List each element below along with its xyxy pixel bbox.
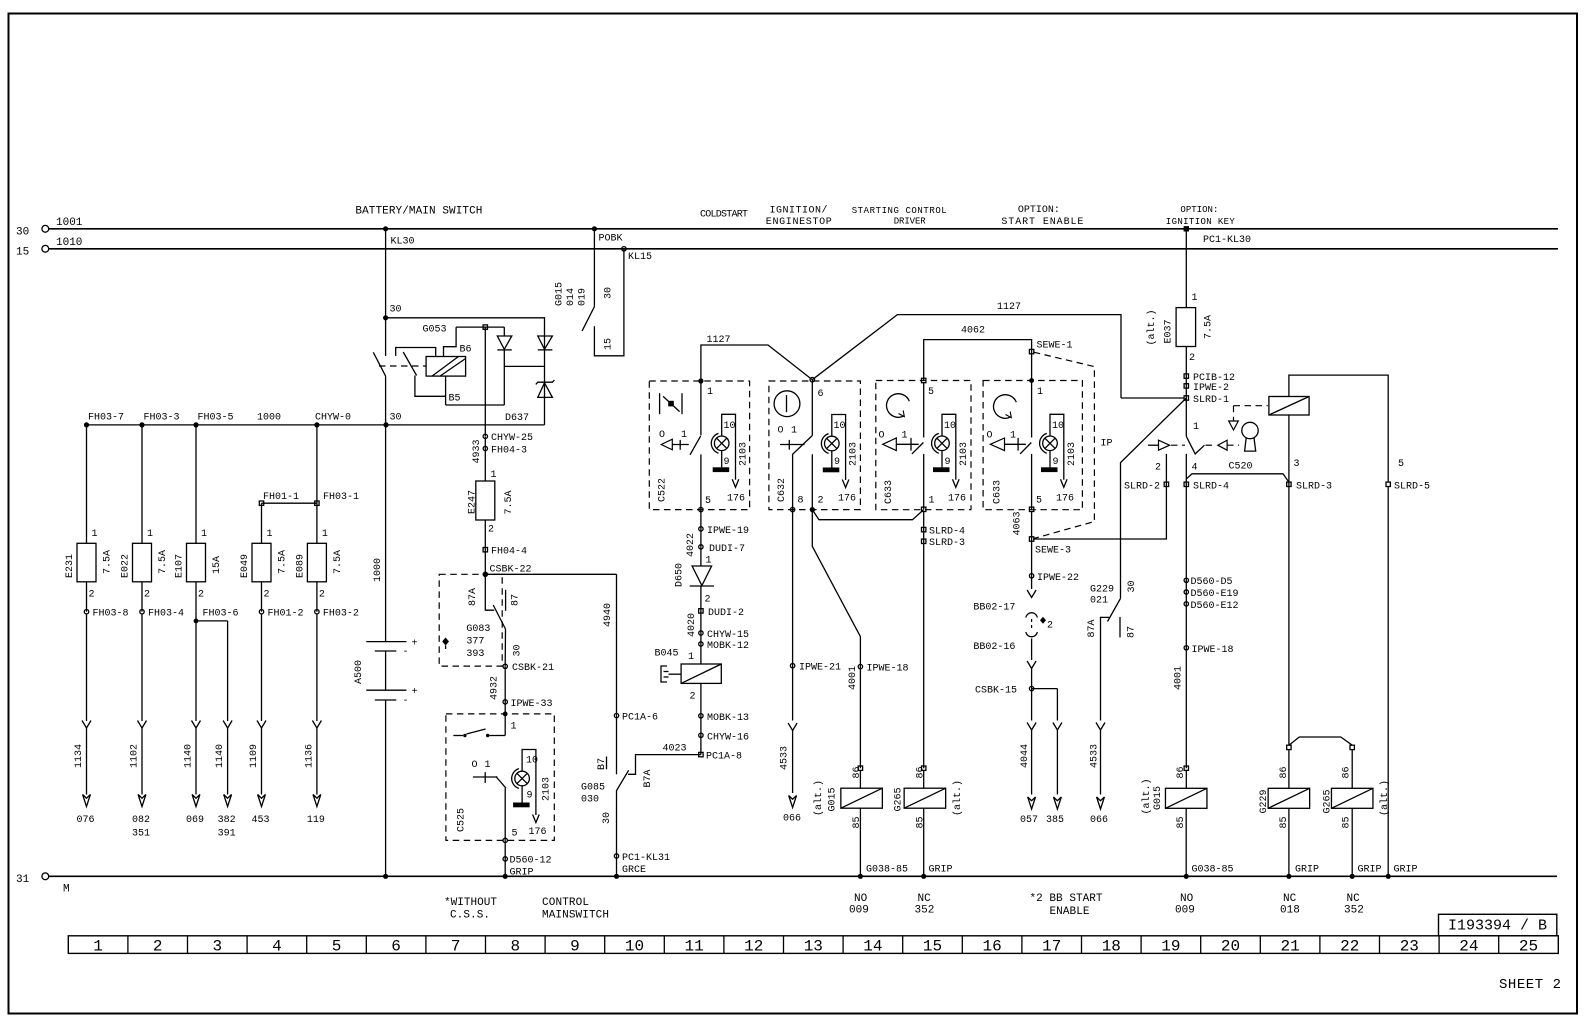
svg-text:009: 009 [1175, 905, 1195, 917]
svg-text:066: 066 [783, 814, 801, 825]
wire 4044 to 057 arrow [1020, 723, 1038, 827]
svg-text:4533: 4533 [1090, 744, 1101, 768]
relay coil G265 right [1323, 766, 1392, 916]
svg-text:C.S.S.: C.S.S. [450, 910, 490, 922]
svg-text:12: 12 [744, 938, 763, 956]
svg-text:2103: 2103 [849, 442, 860, 466]
svg-text:6: 6 [391, 938, 401, 956]
svg-text:385: 385 [1046, 815, 1064, 826]
svg-text:24: 24 [1459, 938, 1478, 956]
svg-text:BB02-16: BB02-16 [973, 642, 1015, 653]
svg-text:GRIP: GRIP [929, 865, 953, 876]
svg-text:5: 5 [705, 496, 711, 507]
switch unit C633 start enable (dashed enclosure) [983, 378, 1082, 510]
branch CSBK-15 to 385 arrow [1032, 689, 1064, 826]
svg-text:-: - [403, 647, 409, 658]
battery A500 [354, 425, 418, 879]
zener diode (in G053) [536, 380, 555, 397]
svg-text:G229: G229 [1090, 585, 1114, 596]
svg-text:1000: 1000 [257, 413, 281, 424]
fuse E247 7.5A [468, 449, 516, 575]
glow plug indicator icon [660, 393, 682, 414]
svg-text:OPTION:: OPTION: [1018, 205, 1060, 216]
svg-text:G038-85: G038-85 [866, 865, 908, 876]
wire pin2 to C633 pin1 and IPWE-18 [812, 510, 923, 769]
svg-text:-: - [403, 696, 409, 707]
svg-text:G085: G085 [581, 783, 605, 794]
switch unit C632 ignition (dashed enclosure) [769, 377, 861, 509]
svg-text:352: 352 [1344, 905, 1364, 917]
svg-text:85: 85 [852, 816, 863, 828]
svg-text:15A: 15A [212, 556, 223, 574]
svg-text:NO: NO [854, 893, 868, 905]
svg-text:7.5A: 7.5A [278, 550, 289, 574]
svg-text:O: O [472, 760, 478, 771]
svg-text:G038-85: G038-85 [1192, 865, 1234, 876]
rotation icon [887, 394, 910, 418]
fuse E037 (alt.) 7.5A [1146, 293, 1215, 436]
wire SEWE-3 to SLRD-2 [1034, 454, 1169, 539]
svg-text:MOBK-13: MOBK-13 [707, 713, 749, 724]
key-operated relay coil (dashed link) [1229, 397, 1309, 431]
svg-text:1: 1 [688, 652, 694, 663]
svg-text:+: + [412, 687, 418, 698]
ignition key switch C520 [1184, 422, 1252, 576]
svg-text:1: 1 [707, 387, 713, 398]
svg-text:SLRD-2: SLRD-2 [1124, 482, 1160, 493]
svg-text:C633: C633 [993, 480, 1004, 504]
svg-text:E049: E049 [240, 554, 251, 578]
svg-text:20: 20 [1221, 938, 1240, 956]
box3 switch contact [879, 431, 935, 510]
C632 switch contact [778, 426, 824, 510]
svg-text:FH01-2: FH01-2 [268, 609, 304, 620]
svg-text:IGNITION/: IGNITION/ [770, 205, 828, 217]
svg-text:B7: B7 [597, 758, 608, 770]
svg-text:1127: 1127 [707, 335, 731, 346]
svg-text:DUDI-7: DUDI-7 [709, 544, 745, 555]
svg-text:1: 1 [511, 722, 517, 733]
relay contact G083/377/393 (dashed enclosure) [439, 574, 523, 666]
svg-text:1: 1 [706, 556, 712, 567]
C632 indicator lamp 2103/176 [821, 415, 859, 505]
svg-text:E107: E107 [175, 554, 186, 578]
svg-text:C522: C522 [658, 478, 669, 502]
nodes SLRD-4 SLRD-3 on wire to G265 [922, 512, 966, 769]
svg-text:351: 351 [132, 829, 150, 840]
svg-text:7.5A: 7.5A [158, 550, 169, 574]
key symbol [1242, 422, 1258, 451]
footnote texts [444, 897, 609, 922]
svg-text:1127: 1127 [997, 302, 1021, 313]
svg-text:*2 BB START: *2 BB START [1030, 893, 1103, 905]
box4 indicator lamp [1040, 414, 1078, 504]
svg-text:86: 86 [1342, 766, 1353, 778]
svg-text:DUDI-2: DUDI-2 [708, 608, 744, 619]
svg-text:30: 30 [390, 413, 402, 424]
svg-text:FH03-5: FH03-5 [198, 413, 234, 424]
wire 4023 to G085 [636, 754, 701, 757]
svg-text:(alt.): (alt.) [1141, 778, 1153, 814]
svg-text:22: 22 [1340, 938, 1359, 956]
svg-text:SLRD-3: SLRD-3 [929, 538, 965, 549]
wire 1127 [701, 302, 1121, 398]
svg-text:G053: G053 [423, 325, 447, 336]
node PC1-KL31 GRCE [614, 853, 670, 879]
node CSBK-22 [483, 565, 532, 578]
svg-text:CHYW-25: CHYW-25 [491, 433, 533, 444]
svg-text:NC: NC [918, 893, 932, 905]
svg-text:1109: 1109 [249, 744, 260, 768]
svg-text:IGNITION KEY: IGNITION KEY [1166, 217, 1236, 227]
svg-text:4022: 4022 [686, 533, 697, 557]
svg-text:E089: E089 [295, 554, 306, 578]
svg-text:10: 10 [724, 421, 736, 432]
svg-text:I193394 / B: I193394 / B [1448, 918, 1547, 935]
svg-text:(alt.): (alt.) [952, 780, 964, 816]
svg-text:30: 30 [1127, 580, 1138, 592]
svg-text:O: O [659, 430, 665, 441]
wire 1127 tail into SLRD-1 [1121, 397, 1184, 399]
node IPWE-18 wire 4001 [1174, 645, 1234, 690]
svg-text:D560-12: D560-12 [510, 856, 552, 867]
wire 4020 nodes [687, 608, 749, 652]
svg-text:21: 21 [1280, 938, 1299, 956]
svg-text:7.5A: 7.5A [1204, 315, 1215, 339]
svg-text:17: 17 [1042, 938, 1061, 956]
svg-text:B045: B045 [655, 649, 679, 660]
svg-text:10: 10 [625, 938, 644, 956]
svg-text:2: 2 [818, 496, 824, 507]
svg-text:FH03-8: FH03-8 [93, 609, 129, 620]
fuse column E022 [121, 425, 185, 840]
svg-text:4063: 4063 [1013, 511, 1024, 535]
svg-text:G083: G083 [466, 624, 490, 635]
svg-text:CSBK-15: CSBK-15 [975, 686, 1017, 697]
svg-text:(alt.): (alt.) [1146, 309, 1158, 345]
svg-text:30: 30 [602, 812, 613, 824]
svg-text:MOBK-12: MOBK-12 [707, 641, 749, 652]
footnote *2 BB START ENABLE [1030, 893, 1103, 918]
svg-text:*WITHOUT: *WITHOUT [444, 897, 497, 909]
box3 indicator lamp [932, 414, 970, 504]
svg-text:CONTROL: CONTROL [542, 897, 589, 909]
svg-text:2: 2 [690, 692, 696, 703]
svg-text:86: 86 [1279, 766, 1290, 778]
svg-text:13: 13 [804, 938, 823, 956]
node SLRD-5 [1386, 482, 1430, 879]
svg-text:E022: E022 [121, 554, 132, 578]
junction [314, 422, 319, 427]
svg-text:453: 453 [251, 815, 269, 826]
node CSBK-21 [503, 663, 554, 674]
diode (in G053, outer) [504, 336, 552, 366]
svg-text:069: 069 [186, 815, 204, 826]
svg-text:176: 176 [529, 827, 547, 838]
svg-text:082: 082 [132, 815, 150, 826]
svg-text:PC1-KL31: PC1-KL31 [622, 853, 670, 864]
svg-text:NC: NC [1283, 893, 1297, 905]
key mechanical linkage [1148, 440, 1239, 450]
svg-text:1: 1 [681, 430, 687, 441]
svg-text:C520: C520 [1229, 462, 1253, 473]
junction [383, 422, 388, 427]
node 1000 distribution bus [87, 413, 545, 425]
svg-text:C633: C633 [884, 480, 895, 504]
svg-text:FH01-1: FH01-1 [263, 492, 299, 503]
svg-text:30: 30 [513, 644, 524, 656]
svg-text:IPWE-18: IPWE-18 [1192, 645, 1234, 656]
svg-text:30: 30 [390, 305, 402, 316]
svg-text:1: 1 [1192, 293, 1198, 304]
svg-text:1: 1 [1010, 431, 1016, 442]
svg-text:5: 5 [512, 829, 518, 840]
svg-text:2: 2 [1047, 621, 1053, 632]
svg-text:IPWE-22: IPWE-22 [1037, 573, 1079, 584]
relay coil G265 (alt.) [894, 766, 965, 917]
svg-text:2: 2 [1155, 463, 1161, 474]
svg-text:1: 1 [92, 529, 98, 540]
svg-text:FH03-7: FH03-7 [88, 413, 124, 424]
svg-text:4940: 4940 [603, 603, 614, 627]
svg-text:SEWE-3: SEWE-3 [1035, 546, 1071, 557]
svg-text:4044: 4044 [1020, 744, 1031, 768]
svg-text:COLDSTART: COLDSTART [700, 210, 748, 221]
relay coil G015 (alt.) right [1141, 766, 1234, 917]
bus 15 (KL15) [16, 237, 1558, 258]
svg-text:CSBK-21: CSBK-21 [512, 663, 554, 674]
switch unit C522 coldstart (dashed enclosure) [649, 378, 749, 509]
svg-text:9: 9 [1053, 457, 1059, 468]
ignition position icon [774, 391, 800, 417]
svg-text:066: 066 [1090, 815, 1108, 826]
svg-text:1: 1 [1193, 422, 1199, 433]
svg-text:86: 86 [1176, 766, 1187, 778]
svg-text:2103: 2103 [739, 442, 750, 466]
svg-text:1: 1 [322, 529, 328, 540]
svg-text:25: 25 [1519, 938, 1538, 956]
relay coil G015 (alt.) [828, 766, 909, 917]
svg-text:87: 87 [1127, 626, 1138, 638]
svg-text:19: 19 [1161, 938, 1180, 956]
wire 4022 nodes IPWE-19 DUDI-7 [686, 510, 749, 567]
junction [139, 422, 144, 427]
svg-text:1000: 1000 [373, 558, 384, 582]
svg-text:IPWE-21: IPWE-21 [799, 663, 841, 674]
svg-text:2: 2 [264, 590, 270, 601]
svg-text:5: 5 [1036, 496, 1042, 507]
node D560-12 GRIP [503, 840, 552, 879]
fuse column E107 [175, 425, 239, 826]
svg-text:86: 86 [852, 766, 863, 778]
svg-text:G229: G229 [1259, 789, 1270, 813]
svg-text:E037: E037 [1164, 319, 1175, 343]
svg-text:D560-E12: D560-E12 [1191, 601, 1239, 612]
svg-text:IPWE-18: IPWE-18 [867, 664, 909, 675]
svg-text:30: 30 [16, 226, 29, 238]
svg-text:B7A: B7A [643, 769, 654, 787]
C522 indicator lamp 2103/176 [711, 414, 749, 504]
svg-text:1010: 1010 [56, 237, 82, 249]
node pin1 box3 [922, 507, 926, 511]
bridge wire between G229 and G265 [1287, 737, 1355, 788]
svg-text:85: 85 [1176, 816, 1187, 828]
switch unit C525 (dashed enclosure) [446, 712, 554, 843]
svg-text:G015: G015 [555, 282, 566, 306]
svg-text:2103: 2103 [542, 777, 553, 801]
svg-text:G265: G265 [1323, 789, 1334, 813]
svg-text:10: 10 [944, 421, 956, 432]
node FH04-4 [483, 547, 527, 558]
svg-text:E247: E247 [468, 490, 479, 514]
svg-text:E231: E231 [65, 554, 76, 578]
node CHYW-25 / FH04-3 [472, 433, 533, 464]
svg-text:4: 4 [1192, 463, 1198, 474]
svg-text:O: O [879, 431, 885, 442]
fuse column E049 [240, 503, 304, 826]
svg-text:11: 11 [684, 938, 703, 956]
svg-text:2: 2 [198, 590, 204, 601]
svg-text:B5: B5 [449, 394, 461, 405]
C522 switch contact [659, 430, 711, 510]
svg-text:PC1-KL30: PC1-KL30 [1203, 235, 1251, 246]
relay coil G229 [1259, 766, 1319, 916]
svg-text:352: 352 [915, 905, 935, 917]
svg-text:1134: 1134 [74, 744, 85, 768]
svg-text:(alt.): (alt.) [1379, 780, 1391, 816]
svg-text:DRIVER: DRIVER [894, 217, 927, 227]
node PC1A-6 [614, 713, 658, 724]
nodes D560-D5/E19/E12 [1184, 576, 1238, 768]
svg-text:START ENABLE: START ENABLE [1001, 217, 1083, 228]
svg-text:8: 8 [510, 938, 520, 956]
svg-text:ENGINESTOP: ENGINESTOP [766, 217, 832, 228]
svg-text:G015: G015 [1153, 786, 1164, 810]
svg-text:FH03-3: FH03-3 [144, 413, 180, 424]
wire 4062 [924, 326, 1032, 381]
svg-text:014: 014 [566, 288, 577, 306]
fuse column FH03-6 branch [215, 621, 236, 840]
diode D650 [675, 563, 715, 664]
svg-text:1: 1 [1037, 387, 1043, 398]
svg-text:MAINSWITCH: MAINSWITCH [542, 910, 609, 922]
svg-text:1: 1 [147, 529, 153, 540]
svg-text:15: 15 [923, 938, 942, 956]
fuse column E089 [295, 425, 359, 826]
svg-text:021: 021 [1090, 596, 1108, 607]
wire below SEWE-3: IPWE-22, BB02 connector, CSBK-15 [973, 539, 1079, 721]
svg-text:2: 2 [89, 590, 95, 601]
wire 4533 to 066 arrow [1090, 723, 1109, 827]
svg-text:STARTING CONTROL: STARTING CONTROL [852, 206, 947, 216]
node pin5 C522 [699, 507, 703, 511]
svg-text:30: 30 [604, 287, 615, 299]
svg-text:PC1A-8: PC1A-8 [706, 752, 742, 763]
coil pin wires to SLRD-3 / SLRD-5 [1289, 375, 1404, 745]
svg-text:D637: D637 [505, 413, 529, 424]
svg-text:176: 176 [1056, 494, 1074, 505]
svg-text:CHYW-0: CHYW-0 [315, 413, 351, 424]
svg-text:4062: 4062 [961, 326, 985, 337]
svg-text:16: 16 [982, 938, 1001, 956]
svg-text:1: 1 [491, 470, 497, 481]
svg-text:SLRD-3: SLRD-3 [1296, 482, 1332, 493]
svg-text:CHYW-16: CHYW-16 [707, 732, 749, 743]
svg-text:393: 393 [466, 649, 484, 660]
svg-text:BB02-17: BB02-17 [973, 602, 1015, 613]
svg-text:1: 1 [485, 760, 491, 771]
wire 4940 [485, 574, 616, 715]
svg-text:176: 176 [948, 494, 966, 505]
svg-text:87A: 87A [1087, 619, 1098, 637]
wire 4932, node IPWE-33 [490, 666, 553, 714]
svg-text:2103: 2103 [959, 442, 970, 466]
svg-text:G265: G265 [894, 787, 905, 811]
svg-text:D560-E19: D560-E19 [1191, 589, 1239, 600]
svg-text:176: 176 [838, 494, 856, 505]
svg-text:1001: 1001 [56, 217, 83, 229]
svg-text:86: 86 [916, 766, 927, 778]
svg-text:4932: 4932 [490, 676, 501, 700]
svg-text:1: 1 [791, 426, 797, 437]
svg-text:FH04-4: FH04-4 [491, 547, 527, 558]
junction [84, 422, 89, 427]
svg-text:018: 018 [1280, 905, 1300, 917]
svg-text:GRIP: GRIP [1295, 865, 1319, 876]
svg-text:G015: G015 [828, 787, 839, 811]
svg-text:15: 15 [604, 338, 615, 350]
svg-text:1140: 1140 [215, 744, 226, 768]
svg-text:5: 5 [1398, 459, 1404, 470]
svg-text:BATTERY/MAIN SWITCH: BATTERY/MAIN SWITCH [355, 206, 482, 218]
relay contact G229/021 [1087, 598, 1138, 720]
main switch contact (battery switch) [373, 318, 425, 425]
svg-text:176: 176 [727, 494, 745, 505]
node FH01-1 / FH03-1 branch [259, 492, 359, 505]
svg-text:FH03-6: FH03-6 [203, 609, 239, 620]
svg-text:2: 2 [153, 938, 163, 956]
sheet column ruler 1-25 [68, 936, 1558, 956]
svg-text:5: 5 [332, 938, 342, 956]
svg-text:FH03-1: FH03-1 [323, 492, 359, 503]
svg-text:87A: 87A [468, 588, 479, 606]
svg-text:4001: 4001 [1174, 666, 1185, 690]
svg-text:POBK: POBK [599, 234, 623, 245]
svg-text:4001: 4001 [848, 666, 859, 690]
svg-text:1: 1 [267, 529, 273, 540]
svg-text:SLRD-1: SLRD-1 [1193, 395, 1229, 406]
step wire pin4 to SLRD-3 [1186, 474, 1332, 493]
svg-text:009: 009 [849, 905, 869, 917]
svg-text:6: 6 [818, 389, 824, 400]
svg-text:C525: C525 [457, 808, 468, 832]
svg-text:2: 2 [488, 525, 494, 536]
svg-text:15: 15 [16, 246, 29, 258]
svg-text:10: 10 [526, 756, 538, 767]
svg-text:GRIP: GRIP [510, 868, 534, 879]
IP boundary (dashed) [1034, 352, 1113, 538]
svg-text:PC1A-6: PC1A-6 [622, 713, 658, 724]
svg-text:2: 2 [705, 595, 711, 606]
svg-text:2103: 2103 [1067, 442, 1078, 466]
svg-text:382: 382 [218, 815, 236, 826]
svg-text:1: 1 [902, 431, 908, 442]
svg-text:391: 391 [218, 829, 236, 840]
svg-text:IP: IP [1101, 439, 1113, 450]
svg-text:85: 85 [1342, 816, 1353, 828]
svg-text:14: 14 [863, 938, 882, 956]
title block I193394 / B [1439, 914, 1557, 936]
